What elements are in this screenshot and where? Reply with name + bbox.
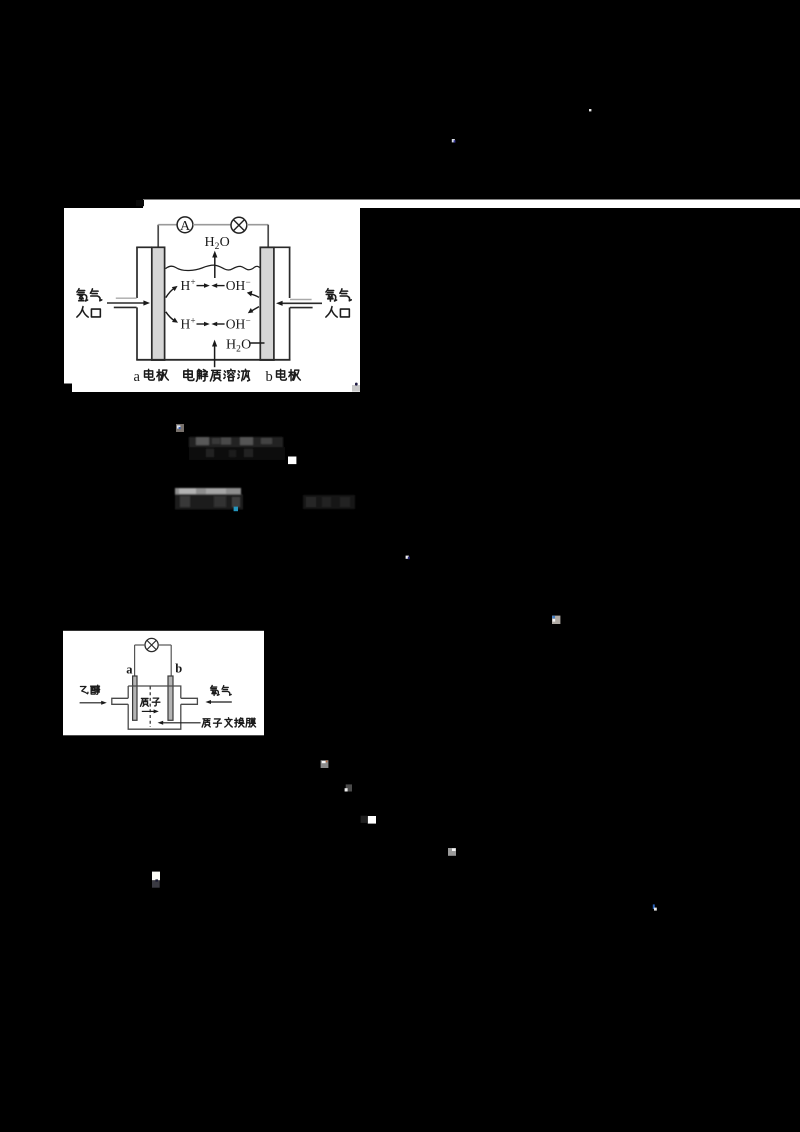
proton exchange membrane dashed line <box>149 687 151 728</box>
wire right vertical to electrode b <box>170 645 172 676</box>
wire right vertical (to b electrode) <box>267 225 269 247</box>
svg-text:b: b <box>266 369 273 385</box>
svg-text:+: + <box>191 315 196 325</box>
hydrogen inlet pipe top line <box>116 297 137 299</box>
svg-text:O: O <box>241 337 251 352</box>
figure 2 panel <box>63 631 264 736</box>
curved arrow electrode a upper <box>166 288 174 297</box>
gray square corner panel 1 <box>352 385 360 392</box>
electrode b figure2 <box>168 676 173 720</box>
outer tube wall a-side (upper) <box>136 247 138 298</box>
label oxygen inlet (yang qi / ru kou) <box>326 289 337 301</box>
curved arrow electrode b upper <box>251 294 259 297</box>
outer tube wall b-side (upper) <box>289 247 291 298</box>
wire ammeter to lamp <box>193 224 231 226</box>
cyan dot <box>234 507 238 512</box>
upper arrow right <box>197 285 205 287</box>
lamp (bulb) <box>231 217 247 233</box>
tube top cap a-side <box>136 246 152 248</box>
evaporation arrow up <box>214 257 216 279</box>
hydrogen inlet pipe bottom line <box>114 306 137 308</box>
lamp figure2 <box>145 638 158 651</box>
wire lamp right horizontal <box>158 644 171 646</box>
wire lamp left horizontal <box>135 644 145 646</box>
oxygen inlet arrow <box>282 302 322 304</box>
H2O pointer dash <box>251 342 265 344</box>
svg-text:H: H <box>226 337 236 352</box>
label proton (zhi zi) <box>140 698 148 706</box>
svg-text:H: H <box>205 235 215 250</box>
electrode a figure2 <box>133 676 137 720</box>
wire ammeter-left horizontal <box>158 224 177 226</box>
ethanol arrow <box>80 702 102 704</box>
black notch bottom-left of panel 1 <box>64 384 72 393</box>
svg-text:a: a <box>126 663 133 677</box>
blue-white speck 17 <box>653 904 655 909</box>
white-blue speck 2 <box>452 139 455 142</box>
white speck 1 <box>589 109 591 111</box>
electrode b (gray bar) <box>260 247 274 360</box>
hydrogen inlet arrow <box>107 302 144 304</box>
black blob on stripe <box>136 200 144 206</box>
electrode a (gray bar) <box>152 247 165 360</box>
gray square fragment 4 <box>176 424 184 432</box>
wire lamp to right <box>247 224 268 226</box>
label hydrogen inlet (qing qi / ru kou) <box>77 289 88 301</box>
white stripe top <box>143 200 800 209</box>
svg-text:O: O <box>220 235 230 250</box>
water surface wavy line <box>166 265 260 270</box>
svg-text:H: H <box>181 278 191 293</box>
svg-text:OH: OH <box>226 317 246 332</box>
figure 1 panel <box>64 208 360 392</box>
text ghost B <box>303 495 355 509</box>
oxygen inlet pipe bottom line <box>290 307 313 309</box>
container bottom line <box>136 359 290 361</box>
svg-text:b: b <box>175 662 182 676</box>
label oxygen figure2 (yang qi) <box>211 686 220 696</box>
lower arrow left <box>217 323 225 325</box>
gray square fragment 12 <box>321 760 329 768</box>
white square fragment 14 <box>361 816 367 823</box>
navy dot on gray square <box>355 383 358 386</box>
outer tube wall a-side (lower) <box>136 307 138 359</box>
text ghost A <box>175 488 243 509</box>
outer tube wall b-side (lower) <box>289 307 291 359</box>
curved arrow electrode a lower <box>166 312 174 321</box>
gray square fragment 10 <box>552 616 560 624</box>
svg-text:A: A <box>180 219 191 234</box>
proton movement arrow <box>142 710 154 712</box>
label ethanol (yi chun) <box>80 687 88 694</box>
white square fragment 6 <box>288 457 296 465</box>
label proton exchange membrane (zhi zi jiao huan mo) <box>202 719 210 727</box>
upper arrow left <box>217 285 225 287</box>
white-blue speck 9 <box>406 556 409 559</box>
svg-text:+: + <box>191 277 196 287</box>
svg-text:a: a <box>134 369 141 385</box>
membrane pointer arrow <box>163 722 201 724</box>
curved arrow electrode b lower <box>252 307 259 311</box>
beaker with side arms <box>112 686 198 729</box>
white+dark squares fragment 16 <box>152 872 160 881</box>
svg-text:−: − <box>246 315 251 325</box>
svg-text:OH: OH <box>226 278 246 293</box>
oxygen arrow figure2 <box>211 701 232 703</box>
gray square fragment 15 <box>448 848 456 856</box>
oxygen inlet pipe top line <box>290 299 312 301</box>
svg-text:−: − <box>246 277 251 287</box>
dark square fragment 13 <box>346 784 352 791</box>
wire left vertical to electrode a <box>134 645 136 676</box>
electrolyte arrow up <box>214 346 216 368</box>
equation ghost row <box>189 437 285 460</box>
label electrolyte solution <box>184 369 194 380</box>
tube top cap b-side <box>260 246 291 248</box>
lower arrow right <box>197 323 205 325</box>
wire left vertical (a electrode to ammeter) <box>157 225 159 247</box>
svg-text:H: H <box>181 317 191 332</box>
ammeter A <box>177 217 193 233</box>
